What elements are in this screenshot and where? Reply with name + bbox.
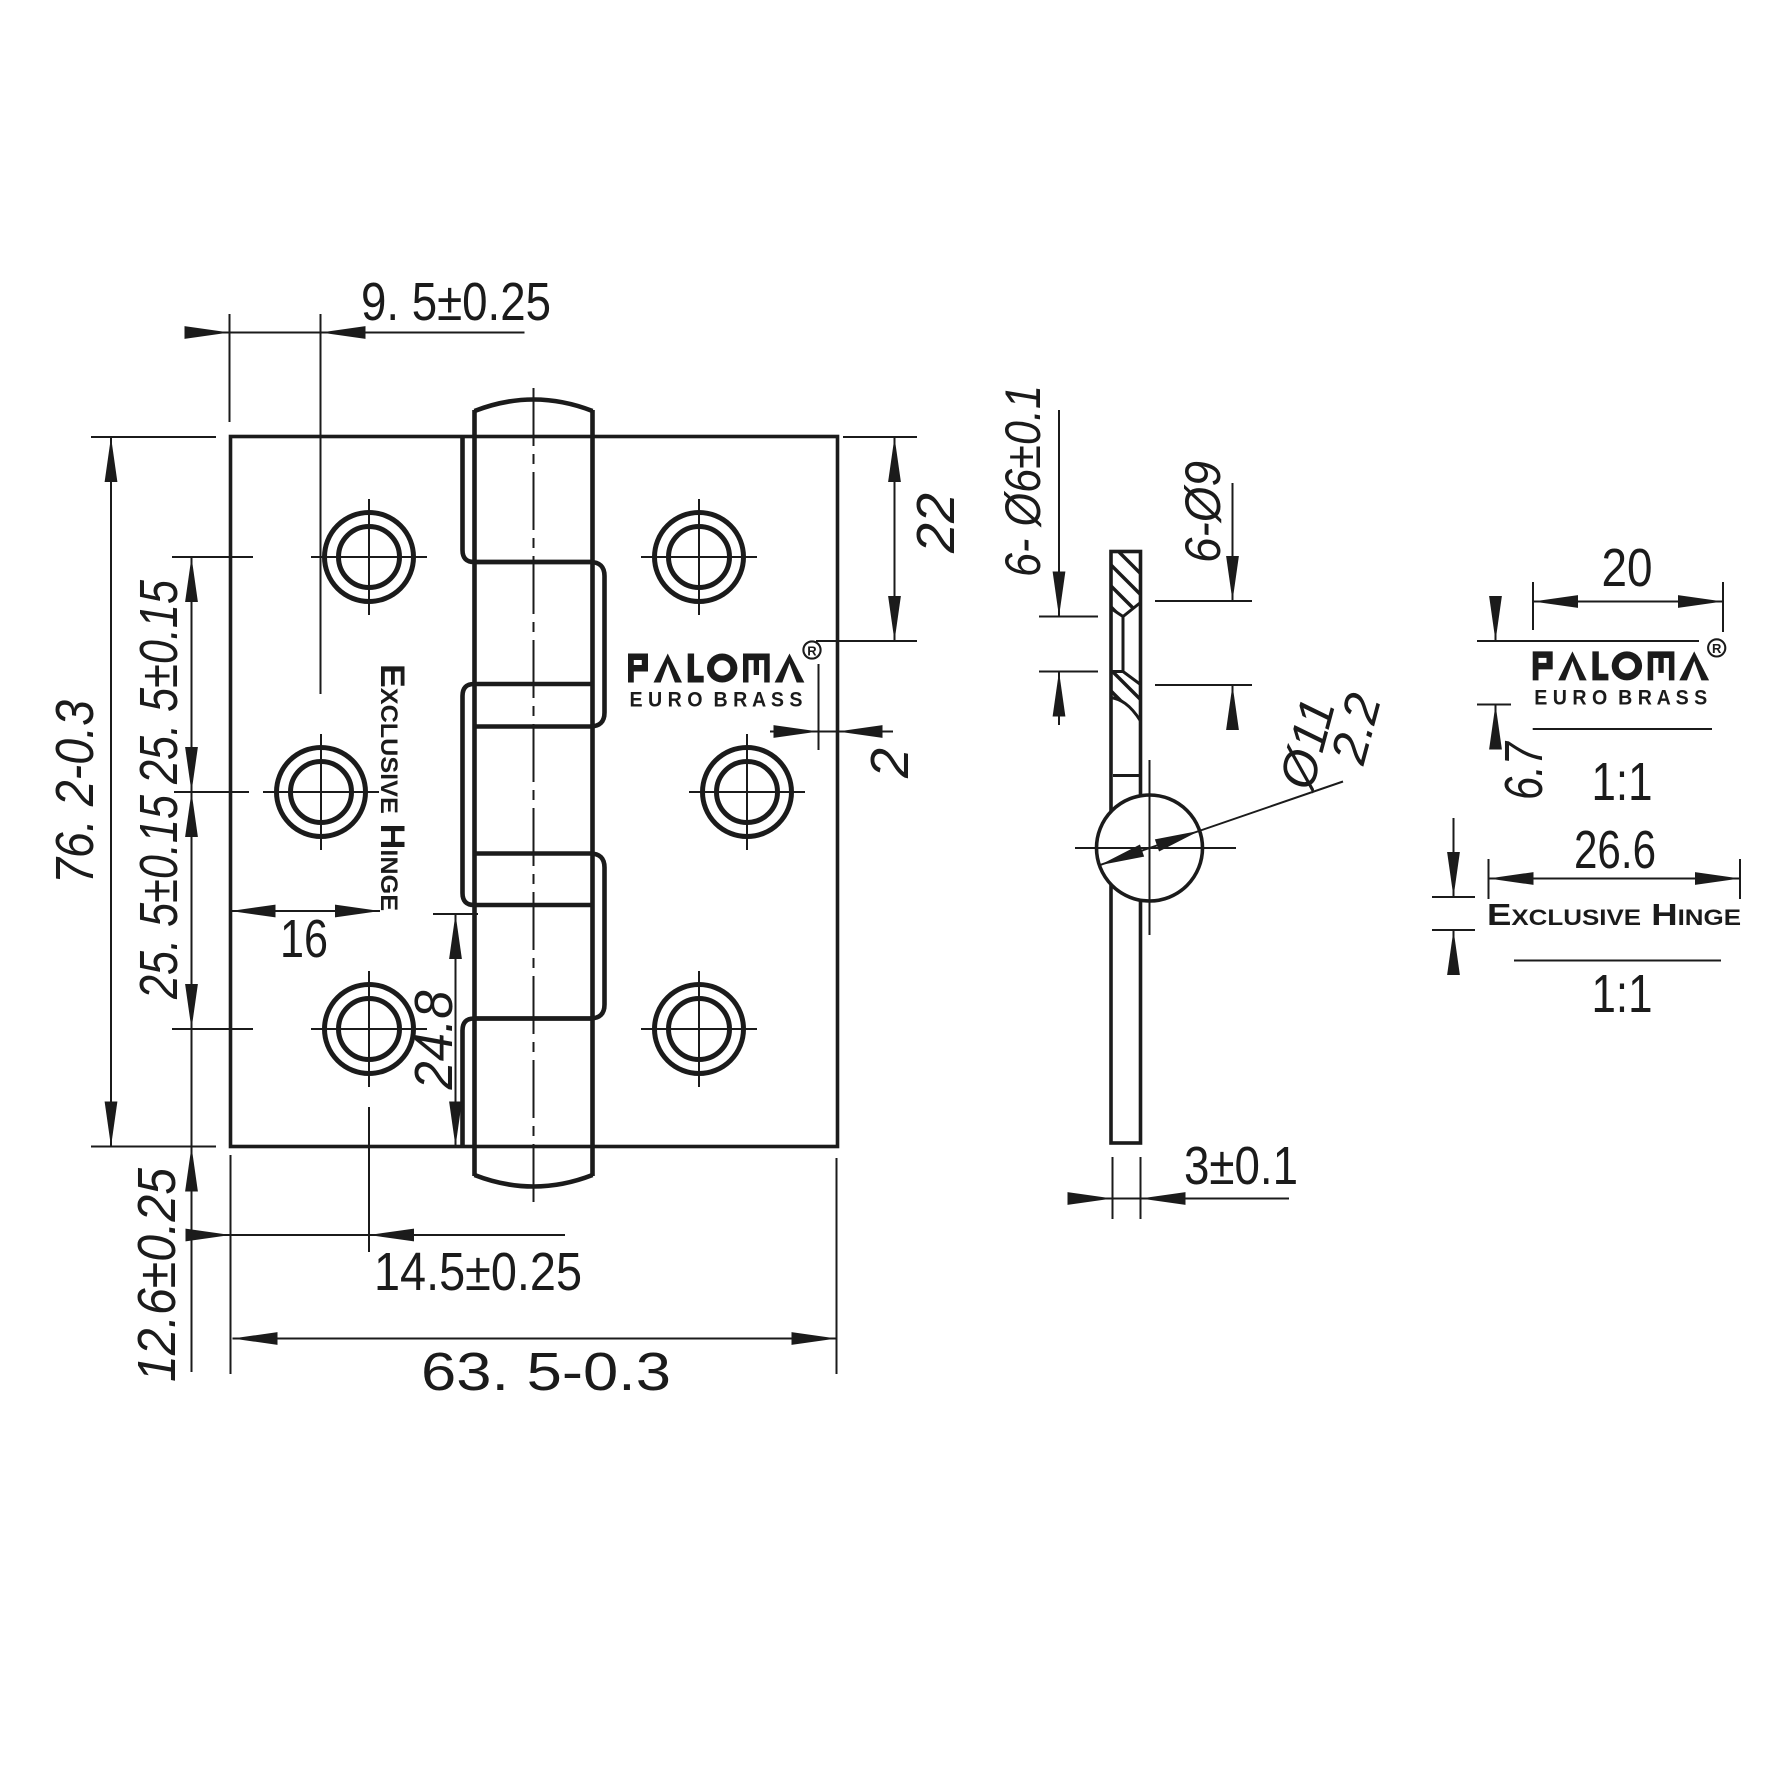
screw hole 6 outer circle (655, 985, 744, 1074)
Exclusive Hinge underline (1514, 960, 1721, 962)
screw hole 1 inner circle (339, 527, 400, 588)
Ø11 leader line (1100, 782, 1344, 866)
plate left edge lower extension (230, 1155, 232, 1374)
text height dimension ticks (1432, 897, 1475, 930)
dimension 9.5±0.25 arrows (185, 326, 230, 339)
dimension 6-Ø9 leader lines (1232, 483, 1234, 719)
hole bore line (1122, 617, 1125, 672)
dimension 9.5±0.25 line (187, 332, 525, 334)
dimension 26.6 arrows (1489, 872, 1534, 885)
svg-text:26.6: 26.6 (1574, 820, 1656, 880)
screw hole 5 outer circle (703, 748, 792, 837)
screw hole 5 crosshair (689, 734, 805, 850)
svg-text:6.7: 6.7 (1494, 740, 1554, 800)
svg-text:16: 16 (280, 909, 328, 969)
pin centerline (533, 388, 535, 1208)
svg-text:2: 2 (860, 748, 920, 779)
svg-text:12.6±0.25: 12.6±0.25 (127, 1167, 187, 1382)
pin left edge (472, 410, 477, 1176)
dimension 9.5±0.25 extension line (plate left edge) (229, 314, 231, 422)
dimension 6-Ø6 arrows (1053, 572, 1066, 617)
left knuckle lower outline (463, 1019, 593, 1147)
dimension 76.2 arrows (105, 437, 118, 482)
dimension 6-Ø6 leader lines (1058, 410, 1060, 725)
chain dimension arrows (185, 557, 198, 602)
dimension 6.7 leader lines (1495, 599, 1497, 743)
dimension 6-Ø9 arrows (1226, 556, 1239, 601)
left knuckle middle outline (463, 684, 593, 905)
dimension 9.5±0.25 extension line (middle hole column) (320, 314, 322, 694)
screw hole 4 outer circle (655, 513, 744, 602)
barrel top line (1113, 774, 1139, 777)
dimension 6.7 extension lines (1477, 641, 1699, 705)
svg-text:14.5±0.25: 14.5±0.25 (374, 1242, 582, 1302)
svg-text:6- Ø6±0.1: 6- Ø6±0.1 (995, 385, 1051, 577)
svg-text:1:1: 1:1 (1592, 752, 1653, 812)
logo underline (1533, 728, 1712, 730)
svg-text:3±0.1: 3±0.1 (1184, 1136, 1298, 1196)
svg-text:6-Ø9: 6-Ø9 (1175, 461, 1231, 563)
right knuckle upper outline (475, 562, 605, 727)
dimension 2 line (770, 731, 893, 733)
dimension 63.5 line (233, 1338, 837, 1340)
PALOMA logo 1:1 (1533, 639, 1726, 709)
dimension 26.6 extension lines (1489, 859, 1741, 899)
screw hole 4 inner circle (669, 527, 730, 588)
pin right edge (590, 410, 595, 1176)
dimension 6-Ø9 extension lines (1155, 601, 1252, 685)
dimension 3±0.1 arrows (1068, 1192, 1113, 1205)
svg-text:Exclusive Hinge: Exclusive Hinge (373, 664, 411, 911)
svg-text:20: 20 (1602, 538, 1653, 598)
dimension 16 line (231, 910, 381, 912)
dimension 24.8 extension tick (433, 913, 478, 915)
screw hole 3 outer circle (325, 985, 414, 1074)
section hatch lower (1111, 672, 1141, 720)
dimension 22 extension lines (816, 437, 917, 641)
dimension 14.5 extension (hole column) (368, 1107, 370, 1252)
screw hole 5 inner circle (717, 762, 778, 823)
hinge plate outline (231, 437, 838, 1147)
svg-text:1:1: 1:1 (1592, 964, 1653, 1024)
dimension 20 extension lines (1533, 582, 1723, 632)
svg-text:24.8: 24.8 (404, 991, 464, 1091)
svg-text:25. 5±0.15: 25. 5±0.15 (129, 794, 189, 1000)
svg-text:22: 22 (906, 493, 966, 554)
dimension 6.7 arrows (1489, 596, 1502, 641)
dimension 20 line (1533, 601, 1723, 603)
dimension 22 line (894, 437, 896, 641)
screw hole 1 outer circle (325, 513, 414, 602)
dimension 63.5 arrows (233, 1332, 278, 1345)
pin circle Ø11 (1097, 795, 1203, 901)
pin top dome (475, 400, 593, 412)
text height dimension arrows (1447, 852, 1460, 897)
countersink lower boundary (1111, 672, 1141, 685)
dimension 6-Ø6 extension lines (1039, 617, 1098, 672)
left knuckle upper outline (463, 437, 593, 563)
screw hole 1 crosshair (311, 499, 427, 615)
screw hole 2 crosshair (263, 734, 379, 850)
svg-text:9. 5±0.25: 9. 5±0.25 (361, 272, 551, 332)
dimension 24.8 arrows (449, 914, 462, 959)
pin circle crosshair (1075, 760, 1236, 935)
dimension 14.5 arrows (186, 1229, 231, 1242)
screw hole 3 crosshair (311, 971, 427, 1087)
screw hole 4 crosshair (641, 499, 757, 615)
Ø11 leader arrows (1097, 844, 1144, 871)
dimension 63.5 right extension (836, 1158, 838, 1374)
pin bottom dome (475, 1175, 593, 1187)
right knuckle lower outline (475, 854, 605, 1019)
svg-text:Exclusive Hinge: Exclusive Hinge (1487, 897, 1741, 932)
svg-text:25. 5±0.15: 25. 5±0.15 (129, 579, 189, 785)
screw hole 6 inner circle (669, 999, 730, 1060)
dimension 3±0.1 extension lines (1113, 1157, 1141, 1219)
text height dimension leader lines (1453, 818, 1455, 959)
dimension 24.8 line (455, 914, 457, 1147)
dimension 76.2 extension lines (91, 437, 216, 1147)
knuckle transition curve (1111, 698, 1141, 722)
dimension 3±0.1 line (1068, 1198, 1289, 1200)
dimension 26.6 line (1489, 878, 1741, 880)
screw hole 3 inner circle (339, 999, 400, 1060)
dimension 22 arrows (888, 437, 901, 482)
screw hole 2 outer circle (277, 748, 366, 837)
dimension 2 arrows (774, 725, 819, 738)
dimension 14.5 line (197, 1234, 566, 1236)
countersink upper boundary (1111, 603, 1141, 617)
svg-text:76. 2-0.3: 76. 2-0.3 (45, 700, 105, 884)
svg-text:63. 5-0.3: 63. 5-0.3 (421, 1342, 671, 1402)
dimension 2 extension line (818, 664, 820, 750)
chain dimension line (191, 557, 193, 1372)
screw hole 6 crosshair (641, 971, 757, 1087)
dimension 16 arrows (231, 905, 276, 918)
dimension 76.2 line (110, 437, 112, 1147)
dimension 20 arrows (1533, 595, 1578, 608)
section plate outline (1111, 552, 1141, 1144)
chain dimension 25.5/25.5/12.6 extension lines (172, 557, 253, 1029)
PALOMA logo on plate (628, 641, 821, 711)
screw hole 2 inner circle (291, 762, 352, 823)
section hatch upper (1111, 552, 1141, 617)
Ø11 / 2.2 text (1268, 676, 1392, 808)
